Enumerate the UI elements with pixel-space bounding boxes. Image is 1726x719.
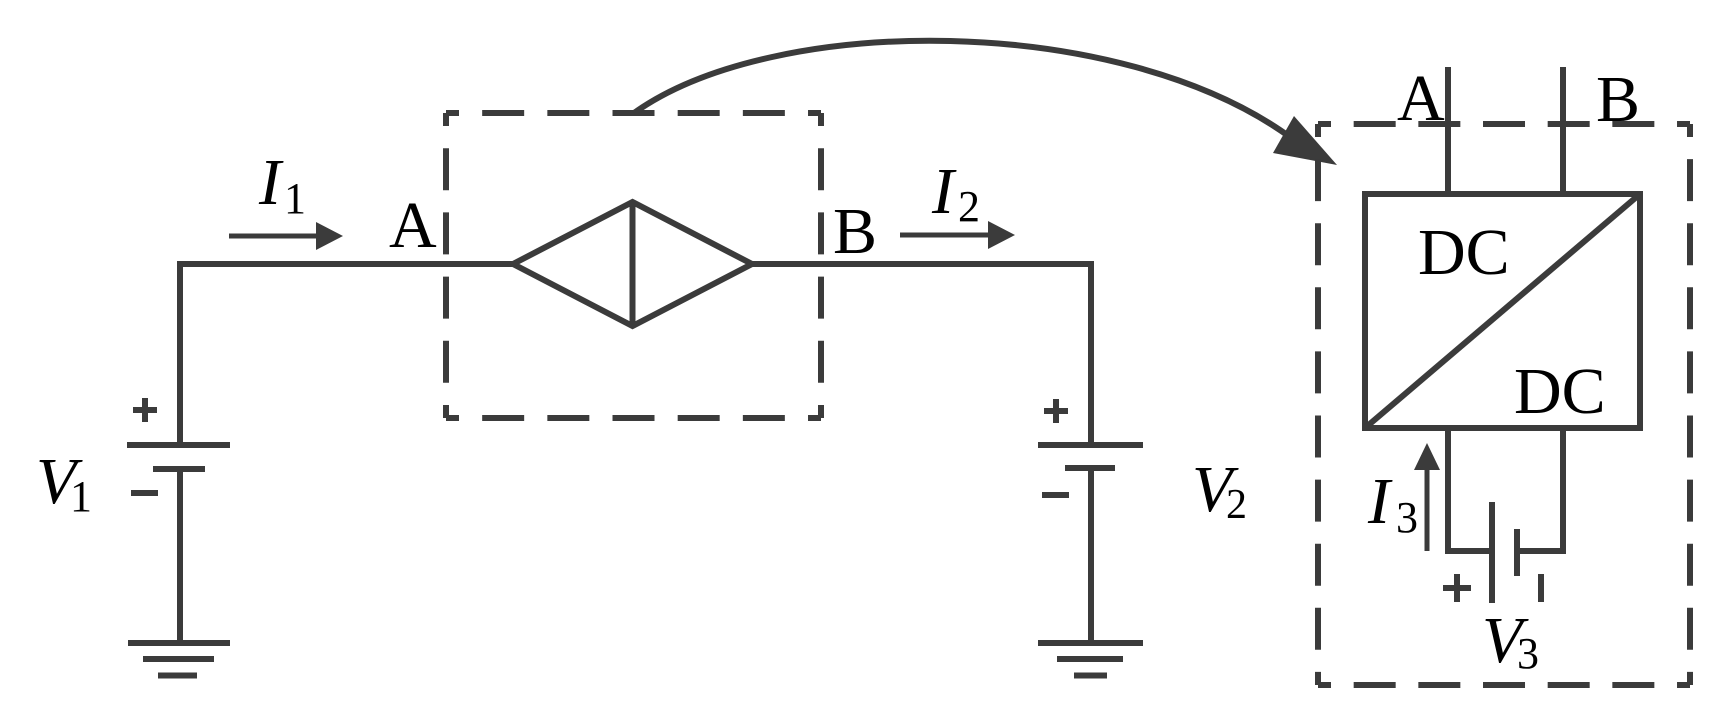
dependent source center line	[630, 202, 636, 326]
svg-text:1: 1	[284, 174, 306, 223]
svg-text:B: B	[833, 195, 877, 268]
svg-text:2: 2	[958, 182, 980, 231]
svg-text:I: I	[931, 155, 957, 228]
svg-text:1: 1	[70, 472, 92, 521]
wire from node B down to V2	[752, 264, 1091, 445]
svg-text:B: B	[1596, 63, 1640, 136]
battery V1 positive plate	[127, 442, 230, 448]
battery V2 positive plate	[1038, 442, 1143, 448]
current arrow I1	[229, 234, 318, 239]
wire V1 to ground	[177, 469, 183, 643]
current arrow I3	[1425, 469, 1430, 551]
wire V2 to ground	[1088, 468, 1094, 643]
curved callout arrow	[634, 41, 1290, 137]
battery V3 negative plate	[1514, 529, 1520, 576]
battery V3 plus sign	[1443, 574, 1471, 602]
svg-text:DC: DC	[1418, 216, 1510, 289]
dashed box around dependent source	[446, 110, 821, 116]
terminal B lead	[1560, 67, 1566, 194]
svg-text:DC: DC	[1514, 355, 1606, 428]
battery V2 plus sign	[1044, 399, 1068, 423]
battery V3 positive plate	[1489, 502, 1495, 603]
battery V2 negative plate	[1065, 465, 1115, 471]
wire from V1 up to node A	[180, 264, 513, 445]
DC-DC converter diagonal	[1365, 194, 1640, 428]
svg-text:A: A	[1397, 62, 1445, 135]
battery V1 minus sign	[131, 490, 158, 496]
terminal A lead	[1445, 67, 1451, 194]
lead from converter to V3 left	[1448, 428, 1490, 551]
battery V1 negative plate	[153, 466, 205, 472]
svg-text:2: 2	[1226, 482, 1247, 528]
lead from converter to V3 right	[1520, 428, 1563, 551]
current arrow I2	[900, 233, 990, 238]
battery V3 minus sign	[1538, 574, 1544, 602]
svg-text:3: 3	[1517, 629, 1539, 678]
svg-text:A: A	[389, 189, 437, 262]
battery V1 plus sign	[133, 398, 157, 422]
DC-DC converter box	[1365, 194, 1640, 428]
ground below V1	[128, 643, 230, 676]
dependent source diamond	[513, 202, 752, 326]
battery V2 minus sign	[1042, 492, 1069, 498]
svg-text:I: I	[258, 146, 284, 219]
dashed box around DC-DC converter	[1318, 121, 1690, 127]
svg-text:I: I	[1367, 465, 1393, 538]
svg-text:3: 3	[1396, 493, 1418, 542]
ground below V2	[1038, 643, 1143, 676]
